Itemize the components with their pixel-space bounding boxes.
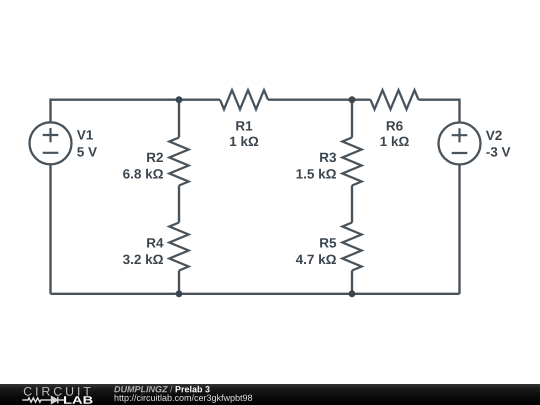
- footer title Prelab 3: [176, 386, 210, 393]
- wire: R5 bottom to node D: [351, 271, 353, 294]
- wire: R2 bottom to R4 top: [178, 186, 180, 223]
- logo text LAB: [64, 396, 93, 403]
- wire: bottom rail middle segment: [179, 293, 352, 295]
- voltage source V2 -3 V: [439, 123, 511, 165]
- logo text CIRCUIT: [24, 387, 91, 396]
- node A (top junction at R2 column): [176, 96, 183, 103]
- wire: bottom rail left segment: [51, 293, 180, 295]
- wire: R1 right terminal to node B: [268, 98, 352, 100]
- logo wire-resistor-diode glyph: [22, 397, 65, 404]
- wire: R3 bottom to R5 top: [351, 186, 353, 223]
- wire: R4 bottom to node C: [178, 271, 180, 294]
- resistor R3 1.5 kΩ: [297, 138, 362, 186]
- wire: R6 right terminal to top-right corner to V2 top lead: [419, 100, 460, 122]
- voltage source V1 5 V: [30, 122, 97, 164]
- footer url: [115, 394, 253, 402]
- resistor R5 4.7 kΩ: [296, 223, 362, 271]
- node B (top junction at R3 column): [349, 96, 356, 103]
- wire: node B to R3 top terminal: [351, 100, 353, 138]
- node D (bottom junction at R5 column): [349, 290, 356, 297]
- wire: bottom rail right segment: [352, 293, 460, 295]
- node C (bottom junction at R4 column): [176, 290, 183, 297]
- resistor R6 1 kΩ: [371, 90, 419, 146]
- wire: V2 bottom lead down right rail: [458, 165, 460, 294]
- wire: V1 top lead to top-left corner to node A: [51, 100, 221, 122]
- footer separator slash: [170, 386, 173, 393]
- footer author DUMPLINGZ: [114, 386, 168, 392]
- resistor R2 6.8 kΩ: [123, 138, 188, 186]
- wire: node B to R6 left terminal: [352, 98, 371, 100]
- resistor R1 1 kΩ: [220, 90, 268, 146]
- wire: node A to R2 top terminal: [178, 100, 180, 138]
- resistor R4 3.2 kΩ: [123, 223, 189, 271]
- wire: V1 bottom lead down left rail: [49, 165, 51, 294]
- footer bar: [0, 384, 540, 405]
